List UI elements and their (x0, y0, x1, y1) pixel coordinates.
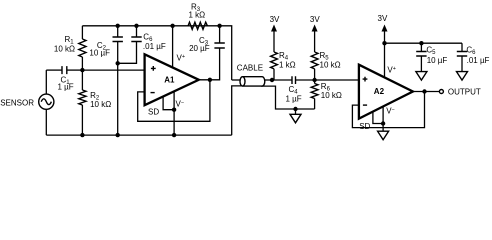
wire C2 ground lead to bottom rail (117, 63, 119, 135)
node ground line (293, 107, 297, 111)
node C2 bottom rail (116, 133, 120, 137)
resistor R6 (311, 80, 342, 109)
op-amp A1 (145, 54, 199, 105)
bottom rail wire (46, 134, 231, 136)
capacitor C4 (286, 76, 315, 103)
svg-text:.01 µF: .01 µF (143, 42, 166, 51)
node R1 R2 C1 (80, 68, 84, 72)
node A2 SD V- (381, 121, 385, 125)
resistor R5 (311, 51, 340, 80)
wire C4 to A2 plus input (315, 79, 359, 81)
3V supply arrow A2 (378, 14, 388, 43)
sensor source (0, 70, 54, 135)
A1 SD pin (148, 97, 174, 117)
node R5 R6 C4 (312, 78, 316, 82)
resistor R1 (54, 26, 86, 70)
svg-text:20 µF: 20 µF (189, 44, 210, 53)
svg-text:10 kΩ: 10 kΩ (321, 91, 342, 100)
3V supply arrow R4 (270, 15, 280, 52)
wire top rail V+ (82, 25, 219, 27)
A1 V- pin (174, 91, 184, 135)
wire A1 output (199, 48, 220, 80)
svg-text:1 kΩ: 1 kΩ (189, 11, 206, 20)
node A2 output (422, 89, 426, 93)
resistor R3 (188, 2, 207, 29)
svg-text:A1: A1 (164, 76, 175, 85)
svg-text:3V: 3V (270, 15, 280, 24)
3V supply arrow R5 (310, 15, 320, 52)
svg-text:10 kΩ: 10 kΩ (320, 60, 341, 69)
A2 V- pin (383, 106, 395, 131)
node 3V A2 (382, 41, 386, 45)
node C6 top rail (134, 24, 138, 28)
cable shield left wire to bottom rail (232, 86, 242, 135)
node C5 (419, 41, 423, 45)
svg-text:3V: 3V (378, 14, 388, 23)
resistor R2 (79, 70, 111, 135)
node C3 R3 riser (217, 24, 221, 28)
wire cable to C4 (272, 79, 292, 81)
op-amp A2 (359, 65, 413, 119)
capacitor C5 (416, 43, 447, 71)
node A1 SD V- (172, 108, 176, 112)
svg-text:3V: 3V (310, 15, 320, 24)
capacitor C6 bypass A1 (118, 26, 166, 64)
node C2 C6 ground lead (116, 61, 120, 65)
svg-text:SENSOR: SENSOR (0, 98, 34, 107)
cable coax (232, 64, 272, 87)
A2 SD pin (359, 112, 383, 132)
node A1 V+ rail (170, 24, 174, 28)
wire rail to cable riser (220, 26, 232, 80)
wire 3V node to C5 C6 (385, 42, 463, 44)
svg-text:1 µF: 1 µF (286, 94, 302, 103)
svg-text:SD: SD (148, 107, 159, 116)
svg-text:10 µF: 10 µF (427, 56, 448, 65)
node A1 V- bottom rail (172, 133, 176, 137)
svg-text:A2: A2 (374, 87, 385, 96)
node cable R4 (270, 78, 274, 82)
node A1 output feedback (208, 78, 212, 82)
svg-text:SD: SD (359, 122, 370, 131)
svg-text:10 kΩ: 10 kΩ (54, 45, 75, 54)
output terminal (439, 87, 481, 96)
svg-text:10 kΩ: 10 kΩ (90, 100, 111, 109)
ground symbol A2 V- (378, 131, 389, 140)
ground symbol C5 (416, 72, 427, 81)
ground symbol cable shield (290, 109, 301, 123)
node R2 bottom rail (80, 133, 84, 137)
A1 feedback wire (138, 80, 210, 122)
wire node to A1 plus input (82, 69, 144, 71)
wire A2 output (413, 91, 440, 93)
svg-text:CABLE: CABLE (237, 64, 263, 73)
capacitor C1 (46, 66, 82, 91)
capacitor C6 bypass A2 (457, 43, 490, 71)
node C2 top rail (116, 24, 120, 28)
A2 feedback wire (352, 92, 424, 128)
svg-text:OUTPUT: OUTPUT (448, 87, 481, 96)
cable shield right wire to ground (261, 86, 315, 109)
svg-text:1 kΩ: 1 kΩ (279, 60, 296, 69)
capacitor C2 (89, 26, 123, 64)
resistor R4 (271, 51, 296, 80)
A1 V+ pin (173, 26, 185, 68)
capacitor C3 (189, 26, 225, 53)
ground symbol C6 (457, 72, 468, 81)
A2 V+ pin (385, 43, 396, 77)
svg-text:1 µF: 1 µF (58, 82, 74, 91)
svg-text:10 µF: 10 µF (89, 49, 110, 58)
svg-text:.01 µF: .01 µF (467, 56, 490, 65)
